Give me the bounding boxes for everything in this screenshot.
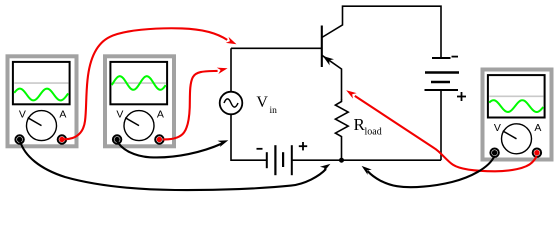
bias battery V1 short plate 2 [282, 152, 284, 167]
multimeter M2 green sine waveform [112, 76, 166, 90]
multimeter M2 dial needle [125, 118, 139, 126]
bias battery plus sign [299, 142, 307, 150]
resistor Rload zigzag [335, 100, 348, 161]
main battery short plate 2 [431, 81, 450, 84]
svg-text:A: A [59, 109, 66, 121]
multimeter M2 screen zero line [112, 82, 166, 84]
multimeter M2 red (probe) terminal [155, 135, 163, 143]
wire: collector riser, top rail, battery top lead [322, 6, 441, 57]
multimeter M1 selector dial [27, 111, 57, 141]
svg-text:in: in [270, 106, 278, 116]
multimeter M3 black (common) terminal [490, 149, 498, 157]
multimeter M1 body/frame [8, 56, 77, 146]
svg-text:A: A [157, 109, 164, 121]
main battery short plate 1 (negative, top) [432, 57, 451, 59]
main battery minus sign [452, 56, 459, 58]
bias battery V1 tall plate 1 [274, 145, 276, 175]
main battery long plate 1 [425, 71, 459, 74]
multimeter M1 dial needle [28, 118, 42, 126]
main battery plus sign [457, 92, 466, 101]
wire: Vin top lead [230, 48, 232, 91]
test lead: M3 black common wire to ground junction [368, 156, 495, 187]
multimeter M3 red (probe) terminal [533, 149, 541, 157]
main battery long plate 2 (positive, bottom) [425, 89, 459, 91]
multimeter M3 dial needle [503, 131, 517, 139]
wire: bottom rail from bias battery to main battery [292, 159, 441, 161]
svg-text:V: V [256, 94, 268, 111]
bias battery minus sign [257, 148, 263, 150]
transistor Q1 emitter arrow (PNP, pointing to base) [323, 56, 334, 65]
svg-text:V: V [19, 109, 26, 121]
multimeter M1 screen [13, 62, 70, 104]
multimeter M3 selector dial [502, 124, 532, 154]
svg-text:V: V [116, 109, 123, 121]
svg-text:load: load [365, 126, 382, 137]
main battery bottom lead [440, 90, 442, 160]
transistor Q1 emitter lead [322, 55, 342, 100]
multimeter M2 body/frame [105, 56, 174, 146]
multimeter M3 green sine waveform [489, 100, 543, 112]
bias battery V1 short plate 1 [266, 152, 268, 168]
wire: base wire from Vin top to Q1 base [231, 47, 322, 49]
test lead: M1 red probe wire to base node [64, 28, 227, 139]
multimeter M3 body/frame [483, 70, 552, 160]
multimeter M1 red (probe) terminal [58, 135, 66, 143]
svg-text:A: A [534, 122, 541, 134]
multimeter M1 screen zero line [14, 82, 68, 84]
test lead: M2 red probe wire to Vin top [163, 71, 218, 140]
AC source Vin circle [220, 92, 243, 115]
multimeter M2 screen [110, 62, 167, 104]
node: emitter/Rload/battery junction dot [339, 158, 344, 163]
wire: Vin bottom lead to bias battery [231, 114, 267, 160]
transistor Q1 base bar [321, 26, 323, 68]
multimeter M3 screen zero line [489, 95, 543, 97]
AC source Vin sine symbol [224, 99, 238, 107]
test lead: M3 red probe wire to Rload top [355, 96, 537, 171]
multimeter M1 black (common) terminal [15, 135, 23, 143]
multimeter M1 green sine waveform [14, 89, 68, 101]
multimeter M2 selector dial [124, 111, 154, 141]
test lead: M1 black common wire to ground junction [20, 141, 326, 190]
bias battery V1 tall plate 2 [291, 145, 293, 175]
test lead: M2 black common wire to Vin bottom [117, 141, 222, 157]
svg-text:V: V [494, 122, 501, 134]
multimeter M3 screen [488, 75, 545, 117]
multimeter M2 black (common) terminal [113, 135, 121, 143]
